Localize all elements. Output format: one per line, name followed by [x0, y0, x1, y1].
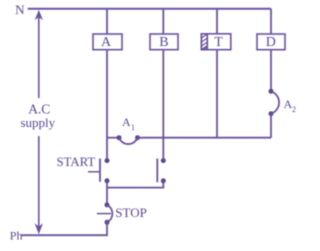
wire timer T down to row2	[216, 50, 218, 138]
wire N bus (top horizontal line)	[28, 8, 271, 10]
wire coil B down through row2 to holding contact	[162, 50, 164, 160]
svg-text:A: A	[122, 115, 131, 129]
wire START bottom to STOP	[106, 181, 108, 204]
svg-text:B: B	[159, 35, 168, 50]
pushbutton STOP (NC, arc bulging right)	[97, 202, 113, 224]
wire contact A2 down to row2 corner	[270, 114, 272, 138]
contactor coil D	[257, 34, 285, 50]
svg-text:1: 1	[131, 123, 135, 132]
svg-text:Ph: Ph	[10, 229, 23, 243]
wire stub to coil B	[162, 9, 164, 34]
svg-text:A: A	[101, 35, 112, 50]
svg-text:STOP: STOP	[115, 205, 147, 220]
svg-text:D: D	[266, 35, 276, 50]
wire holding contact bottom corner to link	[107, 181, 163, 188]
timer T with hatched block	[201, 34, 231, 50]
pushbutton START (NO)	[88, 158, 110, 183]
A.C supply dimension arrow (down head)	[35, 223, 43, 234]
svg-text:START: START	[57, 155, 96, 169]
contact A1 (arc bulging down)	[117, 135, 141, 144]
svg-text:2: 2	[292, 105, 296, 114]
wire row2 right segment to D corner	[138, 137, 272, 139]
contactor coil A	[93, 34, 122, 50]
svg-text:N: N	[15, 2, 25, 17]
wire row2 left segment	[107, 137, 119, 139]
A.C supply arrow shaft upper	[38, 17, 40, 99]
svg-text:T: T	[214, 35, 223, 50]
A.C supply arrow shaft lower	[38, 136, 40, 228]
wire coil A down to row2 junction and START	[106, 50, 108, 160]
wire STOP bottom corner to Ph bus	[22, 222, 108, 235]
wire stub to coil A	[106, 9, 108, 34]
wire stub to timer T	[216, 9, 218, 34]
contactor coil B	[150, 34, 178, 50]
holding contact on B wire (NO)	[157, 158, 166, 183]
contact A2 (arc bulging right)	[269, 89, 280, 116]
wire coil D down to contact A2	[270, 50, 272, 91]
wire stub to coil D (corner from bus)	[270, 9, 272, 34]
svg-text:supply: supply	[21, 115, 56, 130]
A.C supply dimension arrow (up head)	[35, 10, 43, 20]
